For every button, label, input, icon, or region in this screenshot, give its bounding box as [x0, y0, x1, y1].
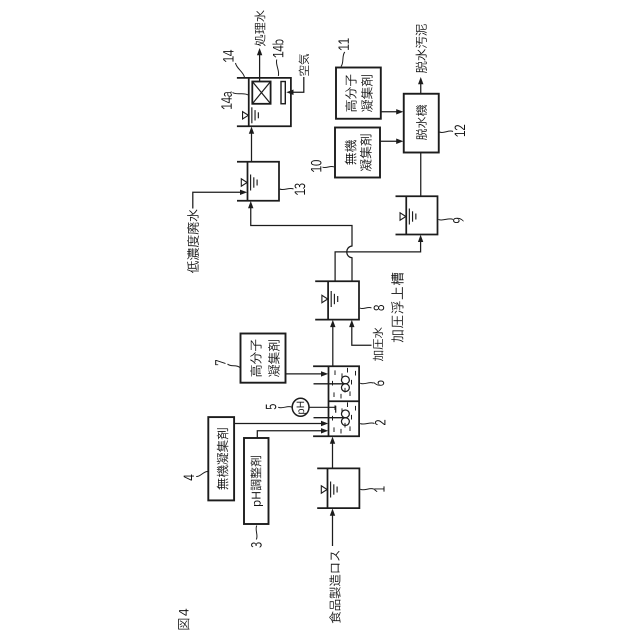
- tank 2/6 partition: [329, 400, 360, 402]
- wire 加圧水 into tank 8: [352, 326, 372, 346]
- wire tank 8 to tank 13 with crossover hop: [251, 207, 352, 281]
- pH probe wire: [309, 406, 336, 408]
- wire tank 8 to tank 9: [335, 241, 421, 281]
- box 10 無機凝集剤 (inorganic coagulant): [335, 128, 380, 178]
- stream label 低濃度廃水 (low concentration wastewater): [187, 210, 199, 274]
- wire 低濃度廃水 into tank 13: [193, 192, 241, 208]
- label 14: [223, 50, 233, 62]
- box 10 text: [345, 140, 357, 165]
- pH meter text: [297, 402, 307, 414]
- box 12 脱水機 (dewatering machine): [404, 94, 439, 153]
- label 6: [374, 380, 385, 385]
- wire box 12 outlet: [420, 83, 422, 94]
- liquid dashes tank 6: [333, 392, 335, 397]
- tank 1 (receiving tank): [317, 468, 359, 508]
- tank 13 (intermediate tank): [237, 162, 279, 201]
- box 11 高分子凝集剤 (polymer coagulant): [336, 68, 381, 119]
- label 3 leader: [255, 526, 258, 540]
- tank 8 (pressurized flotation tank): [315, 281, 359, 319]
- label 9 leader: [439, 219, 454, 220]
- box 3 text: [250, 456, 263, 506]
- label 14b leader: [276, 60, 278, 77]
- label 3: [251, 542, 262, 547]
- water level symbol tank 14: [243, 112, 249, 119]
- stirrer tank 2: [314, 417, 346, 419]
- water level symbol tank 9: [400, 213, 406, 220]
- wire inlet arrow into tank 1: [332, 515, 334, 547]
- wire air into diffuser: [292, 77, 304, 92]
- wire membrane permeate outlet: [259, 78, 261, 82]
- label 14b: [272, 39, 283, 57]
- liquid dashes tank 2: [333, 427, 335, 432]
- label 1: [374, 486, 384, 492]
- box 11 text: [345, 75, 357, 112]
- label 12 leader: [440, 131, 454, 133]
- label 14a leader: [233, 93, 249, 96]
- tank 8 name 加圧浮上槽: [391, 273, 403, 343]
- label 12: [455, 125, 465, 137]
- stream label 処理水 (treated water): [255, 10, 266, 46]
- box 4 無機凝集剤 (inorganic coagulant): [208, 417, 234, 500]
- stream label 空気 (air): [299, 54, 309, 76]
- label 13: [295, 183, 306, 195]
- wire box 3 to tank 2: [257, 431, 322, 438]
- label 10 leader: [323, 166, 335, 167]
- stirrer tank 6: [314, 383, 346, 385]
- water level symbol tank 13: [241, 179, 247, 186]
- label 11 leader: [341, 52, 345, 67]
- wire box 10 to box 12: [380, 140, 397, 142]
- figure label 図4: [178, 609, 189, 630]
- label 2: [375, 420, 385, 425]
- label 5: [266, 404, 277, 409]
- box 3 pH調整剤 (pH adjuster): [244, 438, 269, 524]
- tank 9 (sludge tank): [396, 196, 438, 234]
- box 4 text: [217, 428, 229, 489]
- wire tank 1 to tank 2: [332, 443, 334, 469]
- box 7 高分子凝集剤 (polymer coagulant): [241, 334, 286, 383]
- tank 2/6 shell: [313, 366, 359, 436]
- label 10: [311, 160, 322, 172]
- box 7 text: [250, 340, 262, 377]
- stream label 食品製造ロス (food production loss): [329, 551, 340, 623]
- label 1 leader: [360, 489, 374, 490]
- label 4 leader: [196, 471, 208, 476]
- membrane unit 14a crossed box: [252, 82, 270, 104]
- label 8: [374, 305, 385, 311]
- label 13 leader: [280, 188, 294, 189]
- label 5 leader: [278, 407, 292, 408]
- pH meter circle: [292, 398, 309, 416]
- water level symbol tank 1: [321, 486, 327, 493]
- box 12 text: [416, 105, 427, 140]
- wire tank 13 to tank 14: [251, 133, 253, 162]
- label 7 leader: [228, 364, 240, 368]
- stream label 脱水汚泥 (dewatered sludge): [416, 24, 427, 73]
- air diffuser 14b: [281, 82, 285, 104]
- label 6 leader: [360, 383, 373, 384]
- label 2 leader: [360, 423, 374, 424]
- wire tank 9 to dewatering machine: [420, 153, 422, 197]
- label 14 leader: [236, 63, 245, 77]
- label 9: [453, 218, 463, 223]
- wire box 7 to tank 6: [286, 373, 323, 375]
- tank 14 (membrane separation tank): [237, 78, 291, 126]
- wire tank 6 to tank 8: [332, 326, 334, 366]
- label 14a: [221, 92, 232, 110]
- label 7: [215, 360, 225, 365]
- water level symbol tank 8: [322, 295, 328, 302]
- wire box 11 to box 12: [381, 111, 398, 113]
- label 11: [339, 38, 349, 50]
- stream label 加圧水 (pressurized water): [373, 328, 384, 362]
- label 8 leader: [360, 307, 372, 308]
- label 4: [184, 474, 194, 480]
- wire box 4 to tank 2: [234, 423, 322, 425]
